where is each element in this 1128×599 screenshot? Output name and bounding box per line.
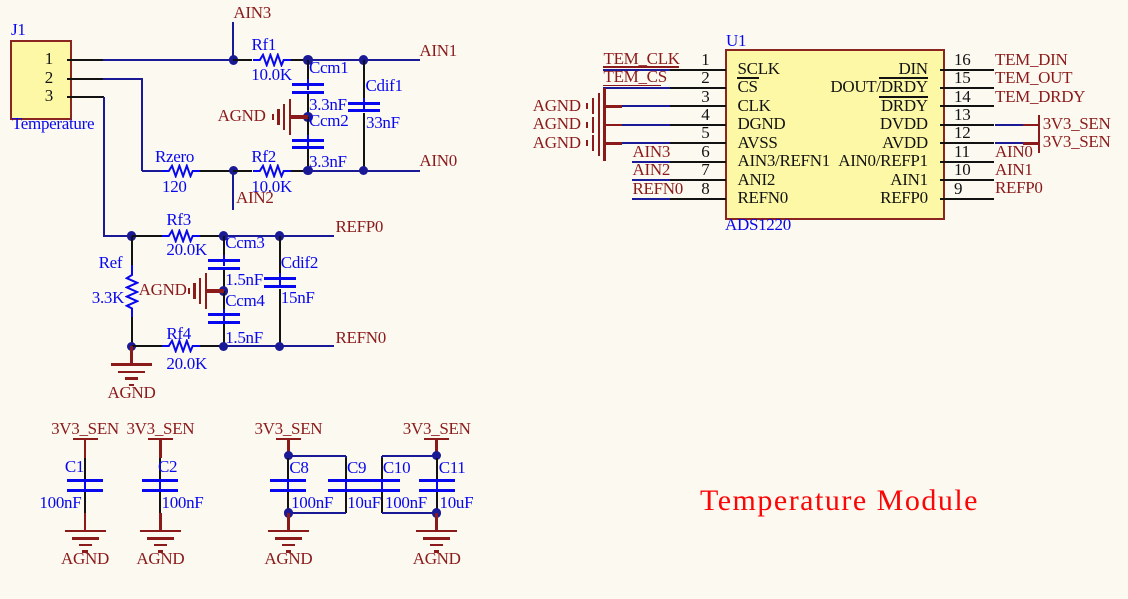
power port AGND at Ccm3 node: [205, 273, 207, 309]
resistor Rzero designator: [155, 148, 194, 165]
junction Ccm4 bottom: [219, 342, 229, 352]
capacitor Ccm1 designator: [309, 59, 348, 76]
resistor Rf4 lead left: [132, 345, 162, 347]
overline CS: [737, 77, 759, 79]
U1 pin 4 stub: [670, 124, 725, 126]
U1 pin 1 number: [670, 51, 710, 68]
wire AIN0 row left: [142, 170, 162, 172]
U1 pin 16 name DIN: [728, 60, 928, 77]
U1 pin 3 number: [670, 88, 710, 105]
junction Cdif1 top: [359, 55, 369, 65]
U1 pin 7 stub: [670, 179, 725, 181]
ground AGND under C11: [435, 513, 438, 531]
net label REFP0 pin9: [995, 179, 1043, 196]
resistor Ref vertical: [125, 265, 139, 317]
capacitor Cdif1 value 33nF: [366, 114, 400, 131]
U1 pin 6 name AIN3/REFN1: [738, 152, 830, 169]
U1 pin 9 name REFP0: [728, 189, 928, 206]
U1 pin 4 name DGND: [738, 115, 786, 132]
U1 pin 15 stub: [940, 87, 995, 89]
capacitor C9 value 10uF: [347, 494, 381, 511]
power label 3V3_SEN pin13: [1043, 115, 1111, 132]
J1 value Temperature: [12, 115, 94, 132]
AGND label bottom: [82, 384, 182, 401]
capacitor C8 value 100nF: [291, 494, 333, 511]
resistor Rf2: [253, 164, 291, 178]
resistor Ref value 3.3K: [44, 289, 124, 306]
net label REFN0 pin8: [633, 180, 683, 197]
wire J1.1 to AIN3 node: [103, 59, 234, 61]
U1 pin 10 name AIN1: [728, 171, 928, 188]
U1 pin 9 number: [954, 180, 962, 197]
net label AIN2: [236, 189, 274, 206]
junction C11 top: [432, 451, 442, 461]
net stub AIN3: [232, 22, 234, 61]
junction AGND mid node 2: [219, 286, 229, 296]
junction REFP0 row left: [127, 231, 137, 241]
wire AVDD to 3V3_SEN: [995, 142, 1023, 144]
power bar 3V3_SEN pin12: [1038, 133, 1041, 153]
U1 pin 14 name DRDY: [728, 97, 928, 114]
U1 pin 1 stub: [670, 69, 725, 71]
wire C8 to C9 bottom: [288, 512, 346, 514]
junction Cdif2 top: [275, 231, 285, 241]
net label TEM_OUT: [995, 69, 1072, 86]
capacitor Cdif2 value 15nF: [281, 289, 315, 306]
power port AGND at Ccm node: [289, 99, 291, 135]
capacitor C8: [287, 458, 289, 479]
underline TEM_CLK: [603, 66, 679, 67]
resistor Ref lead bottom: [131, 317, 133, 346]
wire C8 to C9 top: [288, 455, 346, 457]
capacitor Ccm3: [223, 236, 225, 255]
power label 3V3_SEN pin12: [1043, 133, 1111, 150]
resistor Rf4 lead right: [200, 345, 224, 347]
resistor Ref lead top: [131, 236, 133, 265]
U1 designator: [726, 32, 746, 49]
capacitor Ccm1: [307, 60, 309, 79]
U1 pin 13 stub: [940, 124, 995, 126]
power lead 3V3_SEN pin13: [1023, 124, 1039, 127]
wire AIN1 row mid: [308, 59, 364, 61]
overline DRDY of DOUT/DRDY: [879, 77, 928, 79]
net label AIN1 pin10: [995, 161, 1033, 178]
net label AIN3 pin6: [633, 143, 671, 160]
capacitor C1 value 100nF: [1, 494, 81, 511]
capacitor C9 designator: [347, 459, 366, 476]
resistor Rf1 lead left: [233, 59, 252, 61]
power port AGND pin 5: [603, 125, 605, 161]
power port 3V3_SEN for C10 C11: [377, 420, 497, 437]
AGND label pin 3: [491, 97, 581, 114]
resistor Rf2 lead right: [291, 170, 308, 172]
resistor Rf4 value 20.0K: [166, 355, 207, 372]
U1 pin 8 name REFN0: [738, 189, 788, 206]
wire C9 top down: [345, 456, 347, 459]
3V3_SEN lead C11: [435, 440, 438, 456]
junction C8 top: [284, 451, 294, 461]
resistor Rzero lead right: [200, 170, 234, 172]
junction AGND mid node: [303, 112, 313, 122]
resistor Rzero: [162, 164, 200, 178]
resistor Rf1 lead right: [291, 59, 308, 61]
U1 pin 2 number: [670, 69, 710, 86]
wire C10 top down: [381, 456, 383, 459]
junction C8 bottom: [284, 508, 294, 518]
wire C11 to C10 top: [382, 455, 437, 457]
U1 pin 5 number: [670, 124, 710, 141]
power port 3V3_SEN for C8 C9: [228, 420, 348, 437]
U1 pin 7 name ANI2: [738, 171, 776, 188]
resistor Rf2 designator: [251, 148, 276, 165]
resistor Rf4 designator: [166, 325, 191, 342]
net label REFN0: [336, 329, 386, 346]
capacitor C11 designator: [439, 459, 466, 476]
wire J1.3 vertical down: [103, 97, 105, 237]
capacitor Ccm4 value 1.5nF: [225, 329, 263, 346]
junction Cdif2 bottom: [275, 342, 285, 352]
wire AGND pin 3: [622, 105, 670, 107]
U1 pin 16 number: [954, 51, 970, 68]
AGND lead pin 4: [605, 124, 623, 127]
U1 pin 9 stub: [940, 198, 995, 200]
J1 pin 2 stub: [67, 78, 104, 80]
resistor Rf3 lead right: [200, 235, 224, 237]
J1 pin 1 number: [23, 50, 53, 67]
U1 pin 11 stub: [940, 161, 995, 163]
resistor Rzero value 120: [162, 178, 187, 195]
capacitor C10 value 100nF: [385, 494, 427, 511]
power port 3V3_SEN for C2: [100, 420, 220, 437]
capacitor C1 designator: [24, 458, 84, 475]
U1 pin 12 name AVDD: [728, 134, 928, 151]
3V3_SEN lead C1: [84, 440, 87, 458]
U1 pin 16 stub: [940, 69, 995, 71]
U1 pin 4 number: [670, 106, 710, 123]
resistor Rf3 value 20.0K: [166, 241, 207, 258]
wire AGND pin 4: [622, 124, 670, 126]
resistor Rf4: [162, 339, 200, 353]
U1 pin 6 number: [670, 143, 710, 160]
U1 pin 2 name CS: [738, 78, 758, 95]
U1 pin 14 number: [954, 88, 970, 105]
J1 pin 3 stub: [67, 96, 104, 98]
wire to AIN0 label: [364, 170, 421, 172]
U1 pin 3 stub: [670, 105, 725, 107]
capacitor C11: [436, 458, 438, 479]
capacitor C11 value 10uF: [440, 494, 474, 511]
wire DVDD to 3V3_SEN: [995, 124, 1023, 126]
power bar 3V3_SEN pin13: [1038, 115, 1041, 135]
capacitor Ccm4: [223, 291, 225, 309]
wire AGND pin 5: [622, 142, 670, 144]
power port AGND pin 3: [603, 88, 605, 124]
resistor Rf3: [162, 229, 200, 243]
capacitor Ccm4 designator: [225, 292, 264, 309]
resistor Rf1 designator: [252, 36, 277, 53]
net label AIN0 pin11: [995, 143, 1033, 160]
power lead 3V3_SEN pin12: [1023, 142, 1039, 145]
net label AIN0: [419, 152, 457, 169]
resistor Ref designator: [42, 254, 122, 271]
capacitor Cdif1 designator: [366, 77, 403, 94]
net label TEM_DRDY: [995, 88, 1085, 105]
capacitor Cdif2: [279, 236, 281, 274]
U1 pin 1 name SCLK: [738, 60, 780, 77]
capacitor Ccm2: [307, 117, 309, 135]
U1 pin 13 number: [954, 106, 970, 123]
junction REFN0 row left: [127, 342, 137, 352]
capacitor C8 designator: [289, 459, 308, 476]
U1 pin 3 name CLK: [738, 97, 771, 114]
ground AGND under C2: [159, 513, 162, 531]
wire TEM_CLK: [603, 69, 670, 71]
U1 pin 12 number: [954, 124, 970, 141]
J1 pin 2 number: [23, 69, 53, 86]
ground AGND bottom: [111, 363, 152, 366]
wire C11 to C10 bottom: [382, 512, 437, 514]
capacitor C1: [84, 458, 86, 479]
AGND label: [176, 107, 266, 124]
net label AIN3: [233, 4, 271, 21]
U1 pin 6 stub: [670, 161, 725, 163]
AGND label 2: [97, 281, 187, 298]
resistor Rf3 lead left: [132, 235, 162, 237]
junction AIN2 node: [229, 166, 239, 176]
capacitor Cdif2 designator: [281, 254, 318, 271]
net label TEM_DIN: [995, 51, 1068, 68]
U1 pin 14 stub: [940, 105, 995, 107]
capacitor C2: [159, 458, 161, 479]
wire J1.2 vertical down: [141, 79, 143, 172]
wire J1.3 to REFP0 row: [104, 235, 133, 237]
junction Cdif1 bottom: [359, 166, 369, 176]
capacitor C9: [345, 458, 347, 479]
power port AGND pin 4: [603, 107, 605, 143]
resistor Rf1 value 10.0K: [251, 66, 292, 83]
resistor Rf2 value 10.0K: [251, 178, 292, 195]
wire AIN0 row mid: [308, 170, 364, 172]
junction Ccm3 top: [219, 231, 229, 241]
U1 pin 13 name DVDD: [728, 115, 928, 132]
U1 pin 11 number: [954, 143, 970, 160]
net stub AIN2: [232, 171, 234, 210]
capacitor C10: [381, 458, 383, 479]
AGND label pin 5: [491, 134, 581, 151]
U1 pin 15 number: [954, 69, 970, 86]
wire to REFP0 label: [280, 235, 334, 237]
J1 designator: [11, 21, 26, 38]
AGND lead: [291, 115, 308, 119]
net label REFP0: [336, 218, 384, 235]
wire REFN0 row mid: [224, 345, 280, 347]
capacitor Ccm2 value 3.3nF: [309, 153, 347, 170]
wire AIN3 pin6: [632, 161, 671, 163]
ground AGND under C1: [84, 513, 87, 531]
wire to REFN0 label: [280, 345, 334, 347]
capacitor C2 designator: [158, 458, 177, 475]
wire to AIN1 label: [364, 59, 421, 61]
U1 pin 5 stub: [670, 142, 725, 144]
capacitor Ccm3 value 1.5nF: [225, 271, 263, 288]
AGND lead pin 5: [605, 142, 623, 145]
ground AGND under C8: [287, 513, 290, 531]
capacitor Ccm3 designator: [225, 234, 264, 251]
overline DRDY pin 14: [879, 96, 928, 98]
U1 value ADS1220: [725, 216, 791, 233]
U1 pin 5 name AVSS: [738, 134, 778, 151]
U1 pin 7 number: [670, 161, 710, 178]
wire AIN2 pin7: [632, 179, 671, 181]
U1 pin 8 stub: [670, 198, 725, 200]
3V3_SEN lead C8: [287, 440, 290, 456]
AGND lead 2: [207, 289, 224, 293]
resistor Rf1: [253, 53, 291, 67]
capacitor C10 designator: [383, 459, 410, 476]
wire REFN0 pin8: [632, 198, 671, 200]
wire J1.2 horizontal: [103, 78, 143, 80]
U1 pin 12 stub: [940, 142, 995, 144]
underline TEM_CS: [603, 85, 661, 86]
J1 pin 1 stub: [67, 59, 104, 61]
3V3_SEN lead C2: [159, 440, 162, 458]
AGND lead pin 3: [605, 105, 623, 108]
power port AGND bottom lead: [130, 346, 133, 364]
wire TEM_CS: [603, 87, 670, 89]
IC U1 body: [725, 49, 945, 220]
U1 pin 8 number: [670, 180, 710, 197]
capacitor Ccm1 value 3.3nF: [309, 96, 347, 113]
net label TEM_CS: [604, 68, 667, 85]
capacitor C2 value 100nF: [162, 494, 204, 511]
AGND label pin 4: [491, 115, 581, 132]
U1 pin 2 stub: [670, 87, 725, 89]
capacitor Ccm2 designator: [309, 112, 348, 129]
resistor Rf2 lead left: [233, 170, 252, 172]
power port 3V3_SEN for C1: [25, 420, 145, 437]
title Temperature Module: [700, 486, 979, 516]
junction Ccm1 top: [303, 55, 313, 65]
capacitor Cdif1: [363, 60, 365, 98]
connector J1: [10, 40, 72, 120]
U1 pin 15 name DOUT/DRDY: [728, 78, 928, 95]
wire REFP0 row mid: [224, 235, 280, 237]
junction C11 bottom: [432, 508, 442, 518]
resistor Rf3 designator: [166, 211, 191, 228]
junction Ccm2 bottom: [303, 166, 313, 176]
net label AIN2 pin7: [633, 161, 671, 178]
junction AIN3 node: [229, 55, 239, 65]
net label AIN1: [419, 42, 457, 59]
U1 pin 10 number: [954, 161, 970, 178]
net label TEM_CLK: [604, 50, 680, 67]
U1 pin 11 name AIN0/REFP1: [728, 152, 928, 169]
J1 pin 3 number: [23, 87, 53, 104]
U1 pin 10 stub: [940, 179, 995, 181]
